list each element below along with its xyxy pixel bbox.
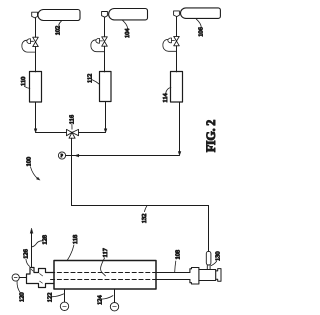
wire cyl102 to regulator: [35, 18, 37, 37]
vent line 126: [31, 233, 33, 267]
svg-text:117: 117: [102, 247, 109, 257]
flow arrow toward junction: [75, 154, 79, 157]
mix line junction: [66, 155, 180, 157]
svg-text:104: 104: [124, 28, 131, 38]
svg-text:132: 132: [141, 214, 148, 224]
thermocouple 122: [60, 289, 68, 310]
wire MFC114 down to mix line: [179, 102, 181, 152]
label 117: [101, 247, 110, 275]
label 118: [67, 235, 78, 260]
thermocouple 124: [110, 289, 118, 311]
wire cyl106 to regulator: [176, 17, 178, 37]
svg-text:FIG. 2: FIG. 2: [204, 120, 218, 153]
svg-text:102: 102: [55, 26, 62, 36]
label 122: [47, 293, 64, 303]
label 128: [32, 235, 48, 247]
svg-text:114: 114: [162, 92, 169, 102]
svg-text:124: 124: [97, 295, 104, 305]
pressure regulator valve for 106: [163, 36, 179, 51]
label 120: [17, 281, 26, 302]
label 124: [97, 295, 113, 305]
gas cylinder 106: [181, 8, 221, 19]
gas cylinder 102: [38, 10, 80, 21]
svg-text:118: 118: [72, 235, 79, 244]
label 108: [174, 250, 181, 272]
port stub into right fitting: [207, 265, 210, 269]
three-way valve 116: [67, 129, 79, 138]
cylinder 104 neck: [102, 12, 108, 18]
outlet tube right of furnace: [156, 273, 190, 280]
pressure regulator valve for 104: [91, 37, 107, 52]
label 100 with arrow: [25, 157, 40, 180]
svg-text:122: 122: [47, 293, 54, 303]
reactor tube 117 dashed: [51, 273, 156, 280]
svg-text:110: 110: [20, 77, 27, 86]
furnace 118: [54, 261, 156, 290]
label 102: [55, 21, 62, 35]
label 106: [196, 19, 204, 37]
label 130: [211, 251, 221, 265]
svg-text:126: 126: [22, 249, 29, 259]
svg-text:130: 130: [215, 251, 222, 261]
vent arrow 128: [30, 228, 33, 233]
cylinder 102 neck: [32, 12, 38, 18]
wire regulator to MFC 112: [104, 46, 106, 72]
header line right of valve 116: [79, 132, 106, 134]
wire cyl104 to regulator: [104, 17, 106, 37]
svg-text:128: 128: [41, 235, 48, 245]
label 110: [20, 77, 30, 89]
wire regulator to MFC 114: [176, 46, 178, 72]
line 132 horizontal run: [72, 205, 209, 207]
svg-text:112: 112: [87, 74, 94, 83]
pressure regulator valve for 102: [22, 37, 38, 52]
svg-text:100: 100: [25, 157, 32, 167]
svg-text:106: 106: [198, 27, 205, 37]
label 104: [123, 20, 131, 38]
left fitting body: [27, 268, 55, 288]
header line left of valve 116: [36, 132, 67, 134]
inline device 130: [206, 251, 211, 265]
gauge 120: [12, 274, 19, 281]
svg-text:120: 120: [19, 292, 26, 302]
mass flow controller 114: [171, 72, 183, 103]
mass flow controller 112: [100, 72, 112, 102]
mass flow controller 110: [30, 72, 42, 103]
arrow onto mix line: [178, 152, 181, 156]
label 112: [87, 74, 100, 85]
label 116: [69, 115, 76, 129]
svg-text:P: P: [61, 153, 64, 158]
wire gauge 120 to fitting: [19, 277, 26, 279]
cylinder 106 neck: [174, 11, 180, 17]
wire MFC110 to header: [35, 102, 37, 129]
wire valve116 down: [71, 138, 73, 205]
wire regulator to MFC 110: [35, 47, 37, 72]
svg-text:116: 116: [69, 115, 76, 124]
line 132 vertical drop: [208, 206, 210, 252]
gas cylinder 104: [109, 9, 148, 20]
label 126: [22, 249, 29, 266]
wire MFC112 to header: [105, 102, 107, 129]
right fitting: [190, 268, 221, 285]
label 132: [141, 206, 148, 223]
arrow into header (right): [104, 129, 107, 133]
pressure gauge P: [58, 152, 65, 159]
arrow into header (left): [34, 129, 37, 133]
label 114: [162, 87, 171, 102]
svg-text:108: 108: [174, 250, 181, 260]
